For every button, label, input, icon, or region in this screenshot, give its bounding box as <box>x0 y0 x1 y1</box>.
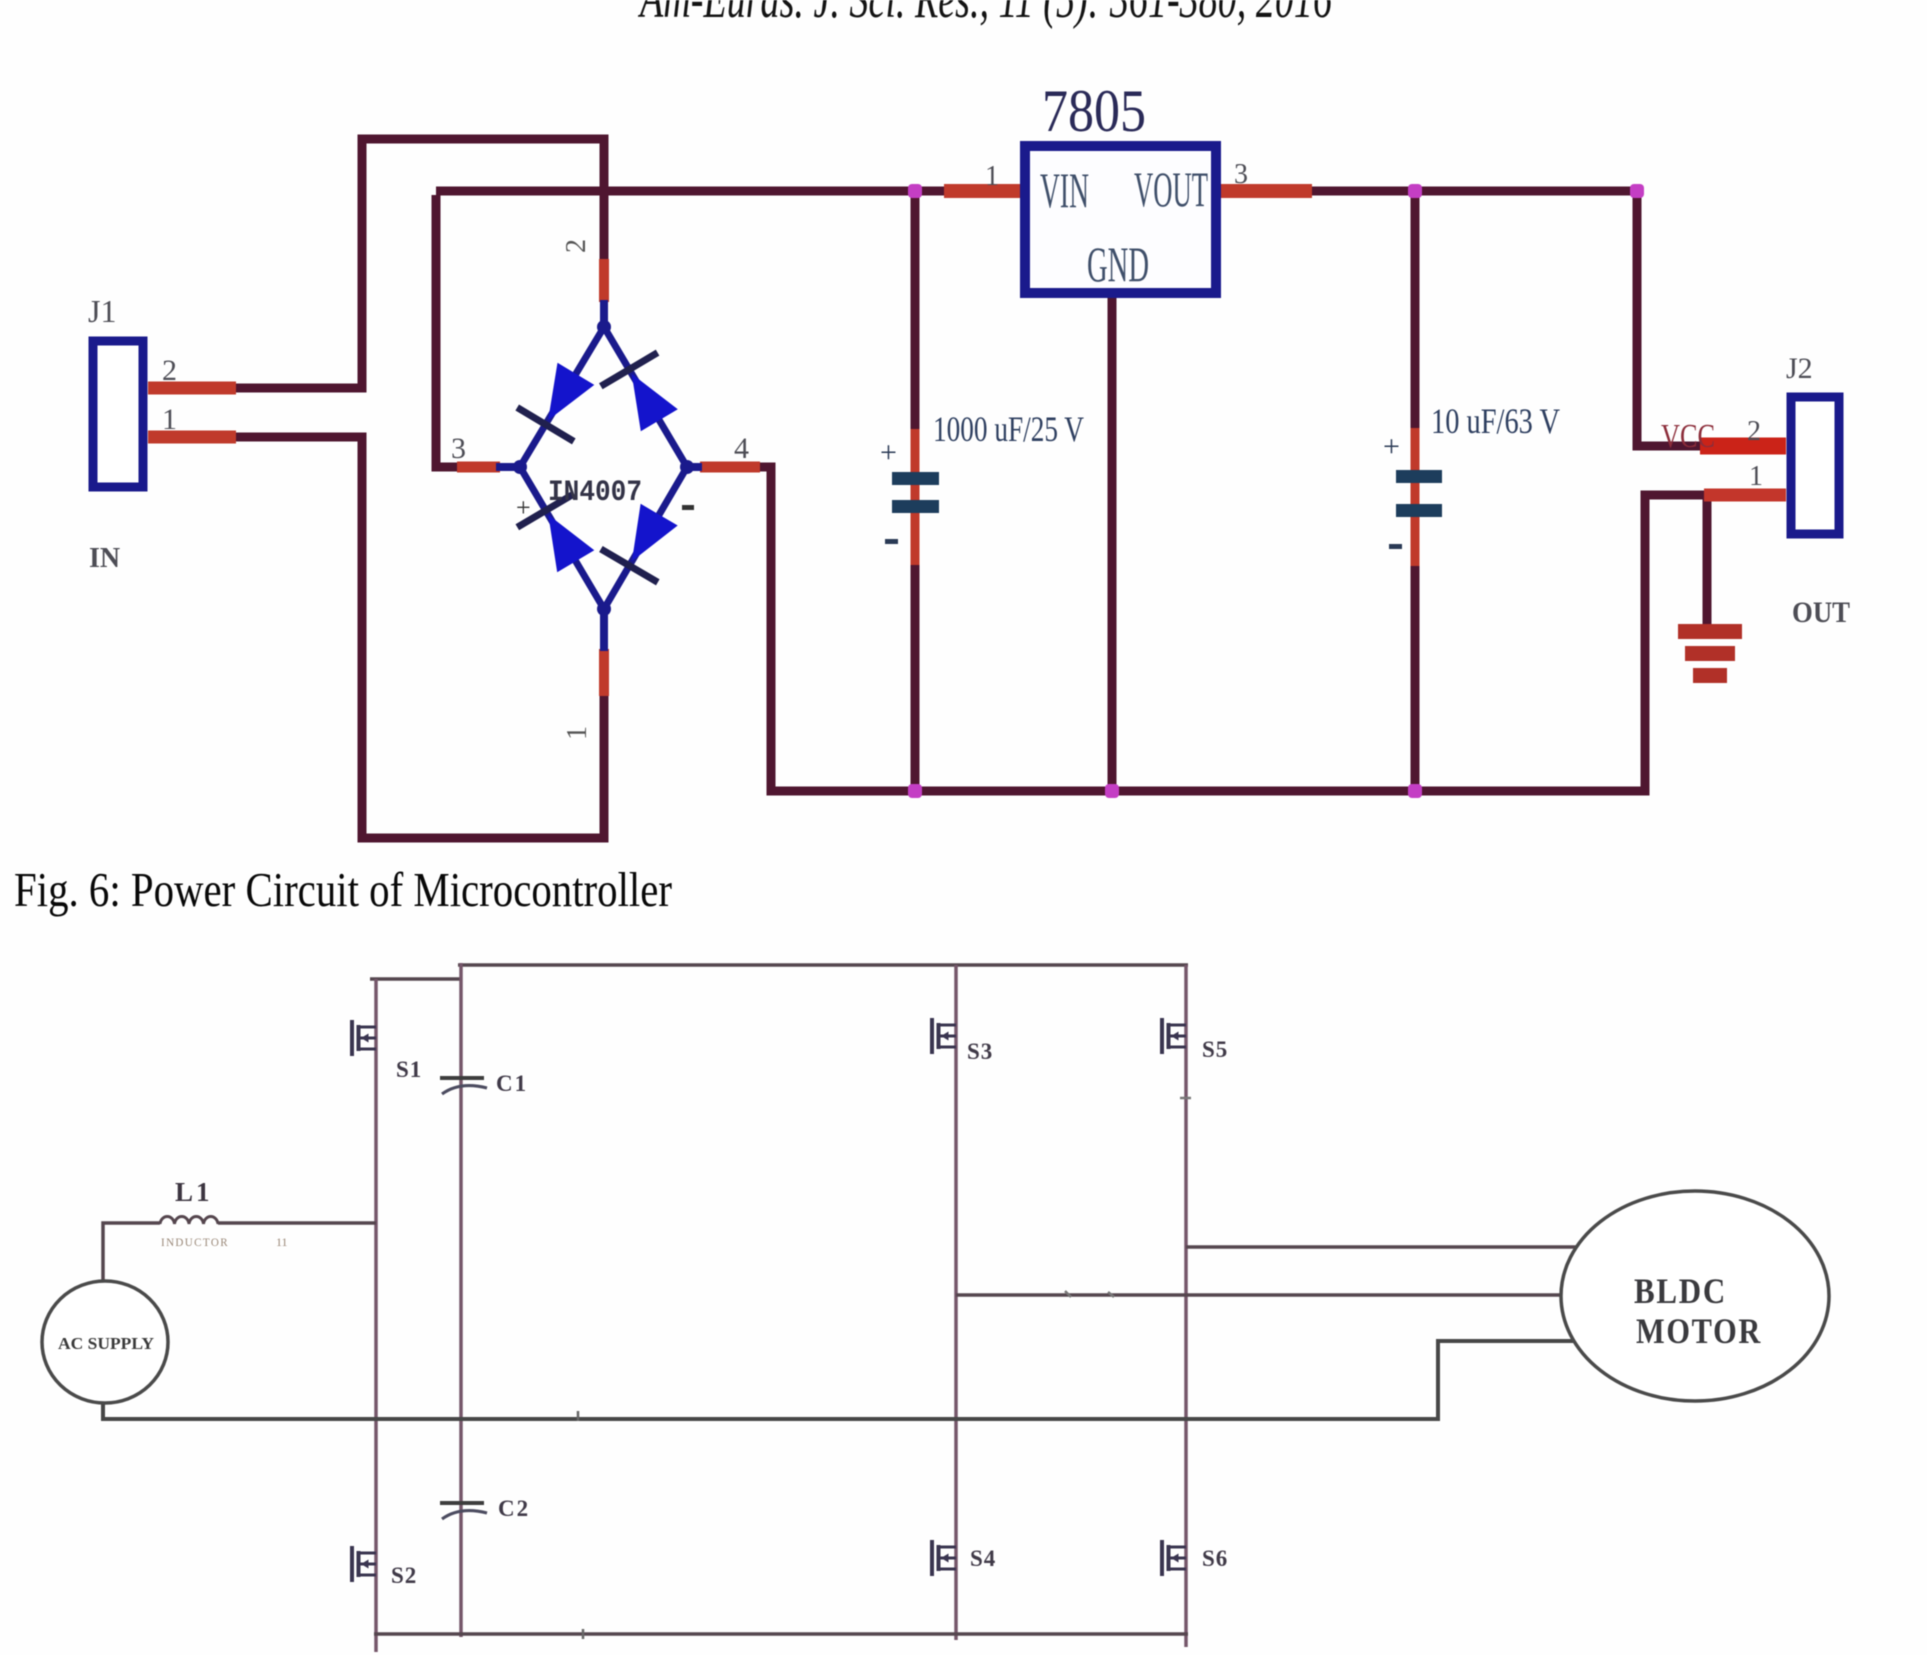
svg-text:S1: S1 <box>396 1057 422 1082</box>
svg-text:VIN: VIN <box>1040 162 1089 218</box>
svg-text:L1: L1 <box>175 1177 213 1207</box>
svg-text:1000 uF/25 V: 1000 uF/25 V <box>933 409 1084 449</box>
svg-text:IN: IN <box>89 543 120 574</box>
svg-text:Fig. 6: Power Circuit of Micro: Fig. 6: Power Circuit of Microcontroller <box>14 862 672 917</box>
svg-text:OUT: OUT <box>1792 596 1850 629</box>
svg-text:1: 1 <box>985 161 999 192</box>
svg-text:1: 1 <box>1749 461 1763 492</box>
svg-text:INDUCTOR: INDUCTOR <box>161 1235 229 1249</box>
svg-text:+: + <box>1383 430 1400 463</box>
svg-text:IN4007: IN4007 <box>548 476 642 510</box>
svg-text:MOTOR: MOTOR <box>1636 1311 1762 1351</box>
svg-text:S3: S3 <box>967 1039 993 1064</box>
svg-text:11: 11 <box>276 1235 288 1249</box>
svg-text:10 uF/63 V: 10 uF/63 V <box>1431 401 1560 441</box>
svg-text:2: 2 <box>561 239 592 253</box>
svg-text:GND: GND <box>1087 236 1149 292</box>
svg-text:1: 1 <box>162 403 177 436</box>
svg-text:VOUT: VOUT <box>1134 161 1208 217</box>
svg-text:4: 4 <box>734 432 749 465</box>
svg-text:C2: C2 <box>498 1496 530 1521</box>
svg-text:S2: S2 <box>391 1563 417 1588</box>
svg-text:VCC: VCC <box>1661 418 1715 455</box>
svg-text:BLDC: BLDC <box>1634 1271 1727 1311</box>
svg-text:2: 2 <box>1747 416 1761 447</box>
svg-text:3: 3 <box>451 432 466 465</box>
svg-text:+: + <box>880 436 897 469</box>
svg-text:J1: J1 <box>88 293 116 329</box>
svg-text:AC SUPPLY: AC SUPPLY <box>58 1334 154 1353</box>
svg-text:Am-Euras. J. Sci. Res., 11 (5): Am-Euras. J. Sci. Res., 11 (5): 361-380,… <box>637 0 1332 30</box>
svg-text:1: 1 <box>562 726 593 740</box>
svg-text:3: 3 <box>1234 159 1248 190</box>
svg-text:+: + <box>516 493 531 522</box>
svg-text:2: 2 <box>162 354 177 387</box>
svg-text:7805: 7805 <box>1042 78 1146 144</box>
svg-text:S4: S4 <box>970 1546 996 1571</box>
svg-text:S6: S6 <box>1202 1546 1228 1571</box>
svg-text:S5: S5 <box>1202 1037 1228 1062</box>
svg-text:C1: C1 <box>496 1071 528 1096</box>
svg-text:J2: J2 <box>1786 352 1813 385</box>
